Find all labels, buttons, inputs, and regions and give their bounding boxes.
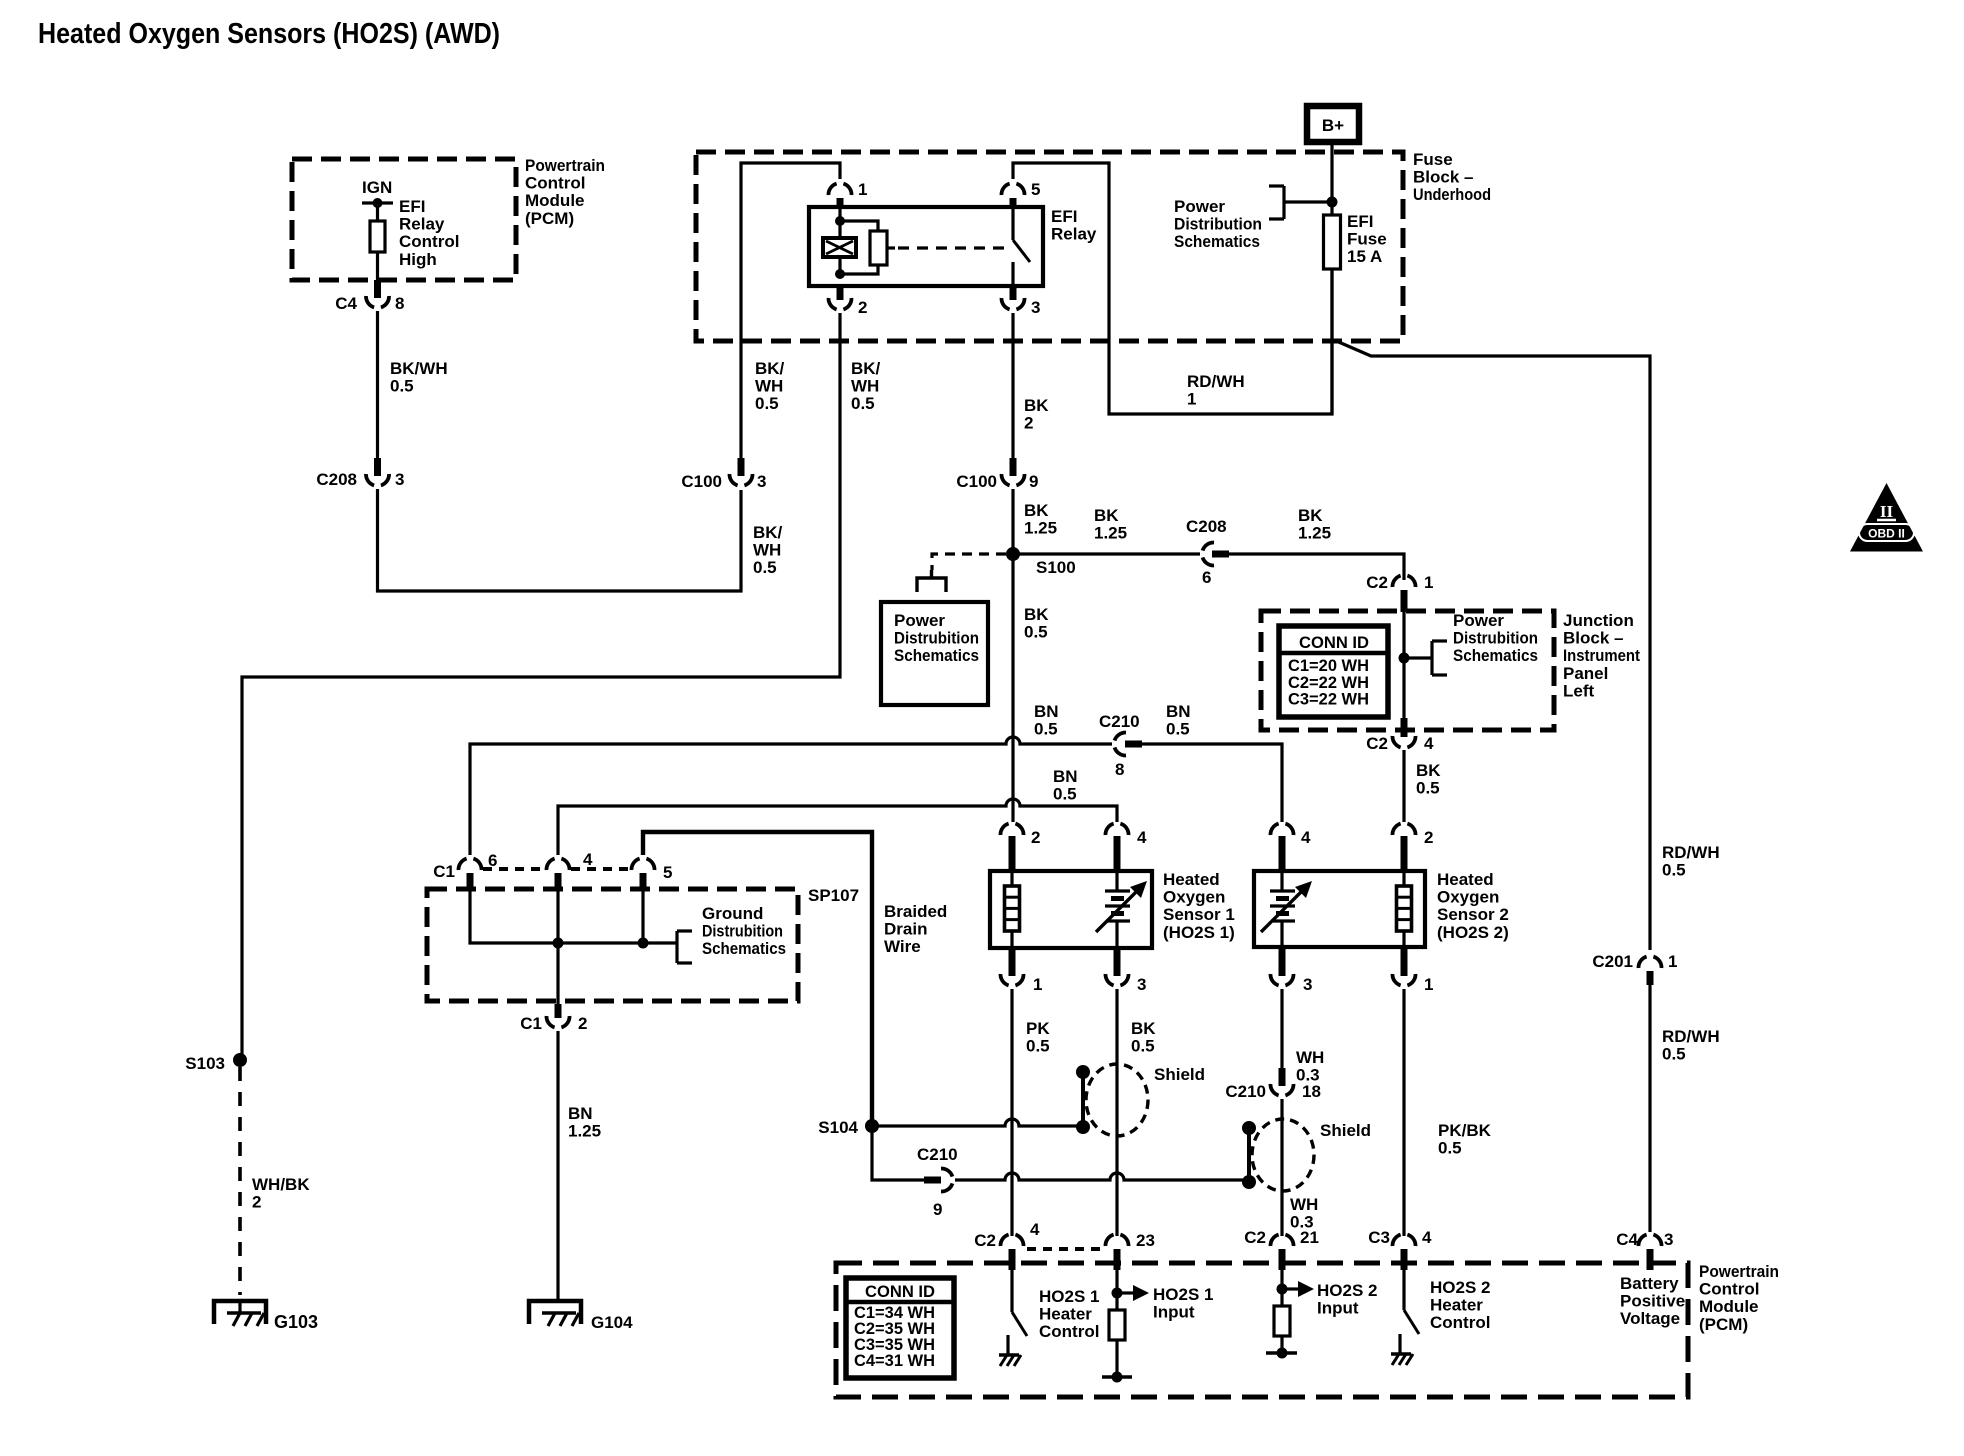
power distribution schematics box bbox=[881, 602, 988, 705]
svg-text:Shield: Shield bbox=[1320, 1121, 1371, 1140]
svg-text:Relay: Relay bbox=[1051, 225, 1097, 244]
wire WH C210-18 to C2-21 bbox=[1280, 1099, 1283, 1236]
svg-text:BK: BK bbox=[1131, 1019, 1156, 1038]
wire fuse branch right bbox=[1334, 340, 1650, 950]
relay link dashed bbox=[887, 246, 895, 249]
switch HO2S2 heater control bbox=[1402, 1270, 1405, 1310]
svg-text:Fuse: Fuse bbox=[1347, 230, 1387, 249]
svg-text:G104: G104 bbox=[591, 1313, 633, 1332]
svg-text:Block –: Block – bbox=[1413, 168, 1473, 187]
svg-text:2: 2 bbox=[1424, 828, 1433, 847]
svg-text:Sensor 1: Sensor 1 bbox=[1163, 905, 1235, 924]
connector C100 pin 3 bbox=[738, 458, 745, 476]
svg-text:BK: BK bbox=[1094, 506, 1119, 525]
svg-text:23: 23 bbox=[1136, 1231, 1155, 1250]
svg-text:HO2S 2: HO2S 2 bbox=[1430, 1278, 1490, 1297]
HO2S1 pin 1 bbox=[1009, 948, 1016, 976]
svg-text:CONN ID: CONN ID bbox=[1299, 633, 1369, 652]
schematic pointer bracket ground bbox=[675, 931, 678, 963]
svg-text:BK: BK bbox=[1298, 506, 1323, 525]
relay coil circuit bbox=[838, 207, 841, 221]
relay switch bbox=[1011, 207, 1014, 240]
svg-text:BN: BN bbox=[1053, 767, 1078, 786]
connector C4 pin 8 bbox=[374, 280, 381, 298]
svg-text:4: 4 bbox=[583, 850, 593, 869]
svg-text:3: 3 bbox=[1031, 298, 1040, 317]
HO2S1 sensor cell bbox=[1115, 871, 1118, 891]
svg-text:9: 9 bbox=[933, 1200, 942, 1219]
svg-text:C1: C1 bbox=[433, 862, 455, 881]
splice S103 bbox=[233, 1053, 247, 1067]
ground G103 bbox=[214, 1301, 266, 1324]
svg-text:0.5: 0.5 bbox=[755, 394, 779, 413]
svg-text:Schematics: Schematics bbox=[1174, 232, 1260, 251]
svg-text:Powertrain: Powertrain bbox=[1699, 1262, 1779, 1281]
svg-text:WH: WH bbox=[755, 377, 783, 396]
svg-text:C1: C1 bbox=[520, 1014, 542, 1033]
svg-text:(PCM): (PCM) bbox=[525, 209, 574, 228]
svg-text:S103: S103 bbox=[185, 1054, 225, 1073]
svg-text:3: 3 bbox=[1303, 975, 1312, 994]
relay pin 5 bbox=[1001, 184, 1024, 195]
svg-text:Power: Power bbox=[1453, 611, 1504, 630]
svg-text:Heated Oxygen Sensors (HO2S) (: Heated Oxygen Sensors (HO2S) (AWD) bbox=[38, 18, 500, 50]
ground G104 bbox=[529, 1301, 581, 1324]
connector C2 pin 4 bbox=[1401, 718, 1408, 737]
svg-text:B+: B+ bbox=[1322, 116, 1344, 135]
svg-text:C2: C2 bbox=[1366, 734, 1388, 753]
HO2S1 input node bbox=[1115, 1270, 1118, 1310]
svg-text:1: 1 bbox=[1424, 573, 1433, 592]
resistor EFI Relay Control High bbox=[376, 203, 379, 221]
connector C3 pin 4 bottom bbox=[1392, 1235, 1415, 1246]
connector C201 pin 1 bbox=[1638, 957, 1661, 968]
svg-text:Junction: Junction bbox=[1563, 611, 1634, 630]
HO2S2 box bbox=[1254, 871, 1425, 947]
svg-text:3: 3 bbox=[395, 470, 404, 489]
svg-text:Voltage: Voltage bbox=[1620, 1309, 1680, 1328]
svg-text:Drain: Drain bbox=[884, 920, 927, 939]
svg-text:2: 2 bbox=[858, 298, 867, 317]
wire PK HO2S1-1 to C2-4 bbox=[1010, 989, 1013, 1236]
fuse block dashed box bbox=[696, 152, 1403, 341]
connector C1 pin 6 bbox=[458, 859, 481, 870]
wire relay pin5 to fuse bbox=[1013, 163, 1332, 414]
relay pin 2 bbox=[837, 286, 844, 300]
svg-text:Distrubition: Distrubition bbox=[894, 629, 979, 648]
svg-text:0.5: 0.5 bbox=[1053, 785, 1077, 804]
svg-text:3: 3 bbox=[757, 472, 766, 491]
wire S104 to C210-9 bbox=[872, 1126, 924, 1180]
svg-text:C210: C210 bbox=[1225, 1082, 1266, 1101]
svg-text:Panel: Panel bbox=[1563, 664, 1608, 683]
fuse EFI 15A bbox=[1324, 215, 1341, 269]
HO2S2 pin 2 bbox=[1392, 824, 1415, 835]
svg-text:Left: Left bbox=[1563, 681, 1595, 700]
wire C208-3 to C100-3 bbox=[378, 489, 742, 591]
svg-text:BK: BK bbox=[1024, 396, 1049, 415]
wire relay pin3 to C100-9 bbox=[1011, 313, 1014, 458]
svg-text:HO2S 1: HO2S 1 bbox=[1153, 1285, 1213, 1304]
svg-text:0.5: 0.5 bbox=[1438, 1139, 1462, 1158]
svg-text:4: 4 bbox=[1422, 1228, 1432, 1247]
svg-text:8: 8 bbox=[1115, 760, 1124, 779]
svg-text:Control: Control bbox=[1430, 1313, 1490, 1332]
svg-text:Positive: Positive bbox=[1620, 1292, 1685, 1311]
HO2S1 pin 2 bbox=[1000, 824, 1023, 835]
svg-text:5: 5 bbox=[663, 863, 672, 882]
svg-text:8: 8 bbox=[395, 294, 404, 313]
wire C100-9 down to HO2S1 pin2 bbox=[1011, 489, 1014, 822]
connector C208 pin 3 bbox=[374, 458, 381, 476]
svg-text:WH: WH bbox=[851, 377, 879, 396]
svg-text:Input: Input bbox=[1153, 1303, 1195, 1322]
C1 connector dashes bbox=[483, 867, 545, 871]
svg-text:(HO2S 2): (HO2S 2) bbox=[1437, 923, 1509, 942]
svg-text:4: 4 bbox=[1137, 828, 1147, 847]
svg-text:Ground: Ground bbox=[702, 904, 763, 923]
svg-text:1: 1 bbox=[1424, 975, 1433, 994]
svg-text:C100: C100 bbox=[956, 472, 997, 491]
svg-text:C4=31 WH: C4=31 WH bbox=[854, 1351, 935, 1370]
svg-text:C210: C210 bbox=[1099, 712, 1140, 731]
svg-text:Heater: Heater bbox=[1430, 1296, 1483, 1315]
svg-text:C208: C208 bbox=[1186, 517, 1227, 536]
svg-text:Relay: Relay bbox=[399, 215, 445, 234]
wire BN C1-4 to HO2S1 pin4 bbox=[558, 799, 1117, 855]
svg-text:Heated: Heated bbox=[1437, 870, 1494, 889]
svg-text:Distrubition: Distrubition bbox=[1453, 629, 1538, 648]
wire BK HO2S1-3 to C2-23 bbox=[1115, 989, 1118, 1236]
svg-text:WH: WH bbox=[1296, 1048, 1324, 1067]
svg-text:EFI: EFI bbox=[1347, 212, 1373, 231]
svg-text:2: 2 bbox=[1031, 828, 1040, 847]
svg-text:2: 2 bbox=[1024, 414, 1033, 433]
svg-text:15 A: 15 A bbox=[1347, 247, 1382, 266]
connector C2 pin 23 bottom bbox=[1105, 1235, 1128, 1246]
svg-text:RD/WH: RD/WH bbox=[1662, 1027, 1720, 1046]
svg-text:BN: BN bbox=[1166, 702, 1191, 721]
C2 connector dashes bottom bbox=[1027, 1247, 1100, 1251]
svg-text:HO2S 1: HO2S 1 bbox=[1039, 1287, 1099, 1306]
HO2S2 pin 3 bbox=[1279, 948, 1286, 976]
svg-text:II: II bbox=[1880, 502, 1894, 521]
connector C4 pin 3 bottom bbox=[1638, 1235, 1661, 1246]
svg-text:PK/BK: PK/BK bbox=[1438, 1121, 1492, 1140]
svg-text:0.5: 0.5 bbox=[1024, 623, 1048, 642]
EFI relay box bbox=[809, 207, 1043, 286]
connector C2 pin 21 bottom bbox=[1270, 1235, 1293, 1246]
relay pin 1 bbox=[828, 184, 851, 195]
svg-text:Powertrain: Powertrain bbox=[525, 156, 605, 175]
connector C100 pin 9 bbox=[1010, 458, 1017, 476]
svg-text:C201: C201 bbox=[1592, 952, 1633, 971]
wire BN C1-6 to HO2S2 pin4 bbox=[470, 737, 1112, 855]
connector C1 pin 5 bbox=[631, 859, 654, 870]
shield 2 bbox=[1252, 1119, 1314, 1191]
svg-text:RD/WH: RD/WH bbox=[1187, 372, 1245, 391]
svg-text:0.5: 0.5 bbox=[1026, 1037, 1050, 1056]
svg-text:RD/WH: RD/WH bbox=[1662, 843, 1720, 862]
svg-text:BK/: BK/ bbox=[753, 523, 783, 542]
wire C2-4 to HO2S2 pin2 bbox=[1402, 750, 1405, 822]
svg-text:Module: Module bbox=[1699, 1297, 1759, 1316]
wire C2-1 through junction bbox=[1402, 612, 1405, 718]
svg-text:Braided: Braided bbox=[884, 902, 947, 921]
svg-text:Oxygen: Oxygen bbox=[1163, 888, 1225, 907]
svg-text:0.5: 0.5 bbox=[1034, 720, 1058, 739]
svg-text:Schematics: Schematics bbox=[1453, 646, 1538, 665]
svg-text:Battery: Battery bbox=[1620, 1274, 1679, 1293]
HO2S2 sensor cell bbox=[1280, 871, 1283, 891]
connector C2 pin 1 bbox=[1392, 576, 1415, 587]
connector C1 pin 2 bbox=[555, 1004, 562, 1018]
svg-text:4: 4 bbox=[1301, 828, 1311, 847]
svg-text:BN: BN bbox=[568, 1104, 593, 1123]
svg-text:9: 9 bbox=[1029, 472, 1038, 491]
svg-text:2: 2 bbox=[252, 1193, 261, 1212]
wire WH HO2S2-3 to C210-18 bbox=[1280, 989, 1283, 1068]
svg-text:EFI: EFI bbox=[399, 197, 425, 216]
connector C2 pin 4 bottom bbox=[1000, 1235, 1023, 1246]
wire C100-3 to relay pin 1 bbox=[741, 163, 840, 458]
PCM module dashed box bbox=[292, 159, 516, 280]
wire C210-9 to shield2 bbox=[955, 1173, 1243, 1180]
svg-text:OBD II: OBD II bbox=[1868, 527, 1905, 541]
svg-text:Distrubition: Distrubition bbox=[702, 922, 783, 941]
svg-text:0.5: 0.5 bbox=[1131, 1037, 1155, 1056]
wire PK/BK HO2S2-1 to C3-4 bbox=[1402, 989, 1405, 1236]
svg-text:Module: Module bbox=[525, 191, 585, 210]
wire dashed S103 to G103 bbox=[238, 1067, 242, 1295]
svg-text:Heated: Heated bbox=[1163, 870, 1220, 889]
SP107 internal wires bbox=[470, 890, 677, 943]
svg-text:0.5: 0.5 bbox=[390, 377, 414, 396]
svg-text:(PCM): (PCM) bbox=[1699, 1315, 1748, 1334]
HO2S2 pin 1 bbox=[1401, 948, 1408, 976]
HO2S2 input node bbox=[1280, 1270, 1283, 1306]
wire fuse to box edge bbox=[1330, 269, 1333, 414]
splice S100 bbox=[1006, 547, 1020, 561]
relay pin 3 bbox=[1010, 286, 1017, 300]
wire BN C1-2 to G104 bbox=[556, 1031, 559, 1301]
svg-text:1.25: 1.25 bbox=[1024, 519, 1057, 538]
svg-text:Power: Power bbox=[894, 611, 945, 630]
svg-text:0.5: 0.5 bbox=[1416, 779, 1440, 798]
svg-text:BK/: BK/ bbox=[851, 359, 881, 378]
CONN ID box PCM bbox=[846, 1278, 954, 1378]
svg-text:1: 1 bbox=[1668, 952, 1677, 971]
svg-text:Block –: Block – bbox=[1563, 629, 1623, 648]
svg-text:5: 5 bbox=[1031, 180, 1040, 199]
svg-text:2: 2 bbox=[578, 1014, 587, 1033]
svg-text:Schematics: Schematics bbox=[894, 646, 979, 665]
HO2S2 heater element bbox=[1402, 871, 1405, 886]
svg-text:WH/BK: WH/BK bbox=[252, 1175, 310, 1194]
schematic pointer bracket fuse block bbox=[1284, 200, 1332, 203]
svg-text:C3: C3 bbox=[1368, 1228, 1390, 1247]
junction block dashed box bbox=[1261, 611, 1554, 730]
svg-text:EFI: EFI bbox=[1051, 207, 1077, 226]
wire C201 to C4-3 bbox=[1648, 985, 1651, 1232]
svg-text:3: 3 bbox=[1664, 1230, 1673, 1249]
shield 1 bbox=[1086, 1064, 1148, 1136]
resistor HO2S1 input bbox=[1109, 1310, 1125, 1340]
svg-text:BK: BK bbox=[1024, 605, 1049, 624]
svg-text:18: 18 bbox=[1302, 1082, 1321, 1101]
svg-text:Control: Control bbox=[525, 174, 585, 193]
svg-text:1.25: 1.25 bbox=[1094, 524, 1127, 543]
svg-text:0.5: 0.5 bbox=[1662, 1045, 1686, 1064]
connector C1 pin 4 bbox=[546, 859, 569, 870]
wire S104 to shield1 bbox=[872, 1119, 1077, 1126]
svg-text:Power: Power bbox=[1174, 197, 1225, 216]
svg-text:4: 4 bbox=[1030, 1220, 1040, 1239]
svg-text:0.5: 0.5 bbox=[1166, 720, 1190, 739]
HO2S2 pin 4 bbox=[1270, 824, 1293, 835]
svg-text:BK/WH: BK/WH bbox=[390, 359, 448, 378]
OBD II symbol bbox=[1850, 483, 1923, 552]
wire braided drain bbox=[643, 832, 872, 1122]
svg-text:C3=22 WH: C3=22 WH bbox=[1288, 690, 1369, 709]
svg-text:WH: WH bbox=[1290, 1195, 1318, 1214]
svg-text:0.5: 0.5 bbox=[851, 394, 875, 413]
svg-text:IGN: IGN bbox=[362, 178, 392, 197]
svg-text:Fuse: Fuse bbox=[1413, 150, 1453, 169]
svg-text:Instrument: Instrument bbox=[1563, 646, 1640, 665]
SP107 dashed box bbox=[427, 889, 798, 1001]
svg-text:BN: BN bbox=[1034, 702, 1059, 721]
svg-text:BK: BK bbox=[1416, 761, 1441, 780]
svg-text:Schematics: Schematics bbox=[702, 939, 786, 958]
svg-text:Oxygen: Oxygen bbox=[1437, 888, 1499, 907]
svg-text:SP107: SP107 bbox=[808, 886, 859, 905]
svg-text:CONN ID: CONN ID bbox=[865, 1282, 935, 1301]
svg-text:BK/: BK/ bbox=[755, 359, 785, 378]
svg-text:1.25: 1.25 bbox=[1298, 524, 1331, 543]
svg-text:High: High bbox=[399, 250, 437, 269]
svg-text:C2: C2 bbox=[1244, 1228, 1266, 1247]
svg-text:1: 1 bbox=[858, 180, 867, 199]
HO2S1 pin 4 bbox=[1105, 824, 1128, 835]
svg-text:WH: WH bbox=[753, 541, 781, 560]
svg-text:(HO2S 1): (HO2S 1) bbox=[1163, 923, 1235, 942]
PCM bottom dashed box bbox=[836, 1263, 1688, 1397]
svg-text:BK: BK bbox=[1024, 501, 1049, 520]
svg-text:0.5: 0.5 bbox=[1662, 861, 1686, 880]
svg-text:Sensor 2: Sensor 2 bbox=[1437, 905, 1509, 924]
HO2S1 pin 3 bbox=[1114, 948, 1121, 976]
svg-text:21: 21 bbox=[1300, 1228, 1319, 1247]
svg-text:4: 4 bbox=[1424, 734, 1434, 753]
wire B+ to fuse bbox=[1330, 142, 1333, 215]
svg-text:Underhood: Underhood bbox=[1413, 185, 1491, 204]
svg-text:Control: Control bbox=[1039, 1322, 1099, 1341]
svg-text:Wire: Wire bbox=[884, 937, 921, 956]
svg-text:C210: C210 bbox=[917, 1145, 958, 1164]
svg-text:1: 1 bbox=[1187, 390, 1196, 409]
svg-text:Shield: Shield bbox=[1154, 1065, 1205, 1084]
CONN ID box junction bbox=[1279, 626, 1388, 717]
svg-text:C4: C4 bbox=[1616, 1230, 1638, 1249]
connector C210 pin 18 bbox=[1279, 1068, 1286, 1086]
svg-text:Heater: Heater bbox=[1039, 1305, 1092, 1324]
svg-text:1.25: 1.25 bbox=[568, 1122, 601, 1141]
svg-text:Distribution: Distribution bbox=[1174, 215, 1262, 234]
svg-text:0.5: 0.5 bbox=[753, 558, 777, 577]
svg-text:6: 6 bbox=[1202, 568, 1211, 587]
svg-text:S100: S100 bbox=[1036, 558, 1076, 577]
resistor HO2S2 input bbox=[1274, 1306, 1290, 1336]
svg-text:1: 1 bbox=[1033, 975, 1042, 994]
svg-text:S104: S104 bbox=[818, 1118, 858, 1137]
svg-text:Control: Control bbox=[1699, 1280, 1759, 1299]
wire relay pin2 to S103 bbox=[242, 313, 840, 1060]
svg-text:C2: C2 bbox=[1366, 573, 1388, 592]
wire BK 1.25 S100 to C2-1 bbox=[1013, 552, 1200, 555]
svg-text:HO2S 2: HO2S 2 bbox=[1317, 1281, 1377, 1300]
svg-text:C100: C100 bbox=[681, 472, 722, 491]
schematic pointer bracket junction bbox=[1404, 656, 1432, 659]
S100 dashed stub bbox=[932, 554, 1006, 570]
HO2S1 box bbox=[990, 871, 1152, 948]
wire BK/WH C4 to C208 bbox=[376, 311, 379, 458]
svg-text:Input: Input bbox=[1317, 1299, 1359, 1318]
svg-text:3: 3 bbox=[1137, 975, 1146, 994]
splice S104 bbox=[865, 1119, 879, 1133]
svg-text:Control: Control bbox=[399, 232, 459, 251]
svg-text:PK: PK bbox=[1026, 1019, 1050, 1038]
HO2S1 heater element bbox=[1010, 871, 1013, 886]
B+ box bbox=[1307, 106, 1359, 142]
switch HO2S1 heater control bbox=[1010, 1270, 1013, 1312]
svg-text:C2: C2 bbox=[974, 1231, 996, 1250]
svg-text:C4: C4 bbox=[335, 294, 357, 313]
svg-text:C208: C208 bbox=[316, 470, 357, 489]
svg-text:G103: G103 bbox=[274, 1312, 318, 1332]
